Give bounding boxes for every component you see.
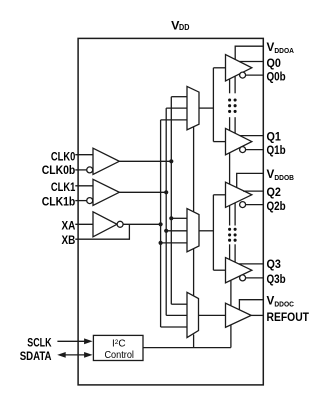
pin CLK0b: [75, 169, 86, 171]
wire VDDOC elbow: [239, 300, 263, 310]
pin CLK1: [75, 185, 93, 187]
chip boundary: [78, 38, 263, 385]
wire Q3 buffer input: [213, 269, 225, 271]
svg-text:Q0: Q0: [267, 56, 282, 70]
wire Q1b output (with inversion bubble): [240, 147, 264, 153]
wire mux M3 inputs: [161, 304, 187, 327]
ellipsis dots bank B: [228, 228, 237, 242]
wire I2C select line: [143, 347, 231, 349]
svg-text:Q1b: Q1b: [267, 143, 286, 157]
wire Q3b output (with inversion bubble): [240, 275, 264, 281]
wire M1 output: [199, 107, 213, 109]
svg-text:REFOUT: REFOUT: [267, 310, 310, 324]
node CLK0 bus: [169, 97, 173, 305]
wire mux M1 inputs: [161, 97, 187, 120]
wire Q0 buffer input: [213, 67, 225, 69]
wire mux M2 inputs: [161, 218, 187, 243]
wire Q1 output: [240, 135, 263, 137]
output buffer Q3: [226, 258, 252, 283]
svg-text:DDOB: DDOB: [274, 173, 294, 182]
svg-text:CLK0b: CLK0b: [42, 163, 76, 177]
I2C control block: [93, 335, 143, 360]
crystal oscillator inverter U3 (XA/XB): [93, 212, 123, 237]
wire U2 output to CLK1 bus: [119, 190, 168, 194]
output buffer Q1: [226, 128, 252, 154]
wire bank A input trunk: [212, 68, 214, 142]
wire Q0 output: [239, 61, 263, 63]
wire Q3 output: [239, 263, 264, 265]
mux M2: [187, 209, 199, 252]
ellipsis dots bank A: [228, 98, 237, 113]
wire bank B input trunk: [212, 195, 214, 270]
mux M1: [187, 86, 199, 129]
svg-text:DDOA: DDOA: [274, 46, 294, 55]
output buffer Q2: [226, 182, 252, 207]
svg-text:V: V: [267, 294, 275, 308]
wire REFOUT output: [251, 314, 263, 316]
svg-text:Q3b: Q3b: [267, 272, 286, 286]
svg-text:Q1: Q1: [267, 129, 282, 143]
wire bank A repeat stubs: [230, 76, 236, 133]
wire M3 output to REFOUT buffer: [199, 314, 226, 316]
wire Q1 buffer input: [213, 141, 225, 143]
wire control riser to REFOUT buffer: [230, 280, 232, 347]
svg-text:Control: Control: [104, 350, 134, 361]
wire U3 output to XTAL bus: [123, 222, 163, 226]
wire VDDOB elbow: [237, 173, 264, 187]
pin CLK0: [75, 154, 93, 156]
svg-text:XA: XA: [62, 219, 76, 233]
svg-text:DDOC: DDOC: [274, 300, 294, 309]
pin XA: [75, 223, 93, 225]
wire mux select chain: [193, 127, 195, 348]
svg-text:Q3: Q3: [267, 257, 282, 271]
input buffer U2 (CLK1/CLK1b): [87, 179, 120, 205]
svg-text:XB: XB: [62, 233, 76, 247]
mux M3: [187, 292, 199, 337]
svg-text:Q0b: Q0b: [267, 70, 286, 84]
svg-text:Q2b: Q2b: [267, 199, 286, 213]
wire VDDOA elbow: [235, 46, 263, 60]
wire Q2 buffer input: [213, 194, 225, 196]
node XTAL bus: [159, 120, 163, 327]
wire Q2 output: [243, 190, 263, 192]
svg-text:SDATA: SDATA: [20, 349, 52, 363]
output buffer Q0: [226, 55, 252, 81]
input buffer U1 (CLK0/CLK0b): [87, 148, 120, 174]
svg-text:CLK1b: CLK1b: [42, 195, 76, 209]
wire U1 output to CLK0 bus: [119, 159, 173, 163]
svg-text:CLK0: CLK0: [51, 149, 76, 163]
svg-text:I2C: I2C: [112, 339, 126, 350]
pin CLK1b: [75, 200, 86, 202]
wire bank B repeat stubs: [230, 203, 236, 262]
wire M2 output: [199, 230, 213, 232]
wire Q2b output (with inversion bubble): [240, 202, 264, 208]
svg-text:CLK1: CLK1: [51, 180, 76, 194]
svg-text:V: V: [267, 40, 275, 54]
svg-text:V: V: [267, 167, 275, 181]
wire Q0b output (with inversion bubble): [240, 72, 264, 78]
svg-text:SCLK: SCLK: [27, 335, 51, 349]
svg-text:DD: DD: [179, 23, 190, 32]
wire control chain Q1 to Q2: [229, 153, 231, 185]
label I2C Control: [104, 339, 134, 361]
pin XB (with feedback to oscillator output): [75, 224, 129, 239]
node CLK1 bus: [164, 108, 168, 315]
pin SDATA double arrow: [57, 352, 92, 358]
output buffer REFOUT: [226, 303, 252, 327]
svg-text:Q2: Q2: [267, 185, 282, 199]
pin SCLK arrow: [57, 338, 92, 344]
